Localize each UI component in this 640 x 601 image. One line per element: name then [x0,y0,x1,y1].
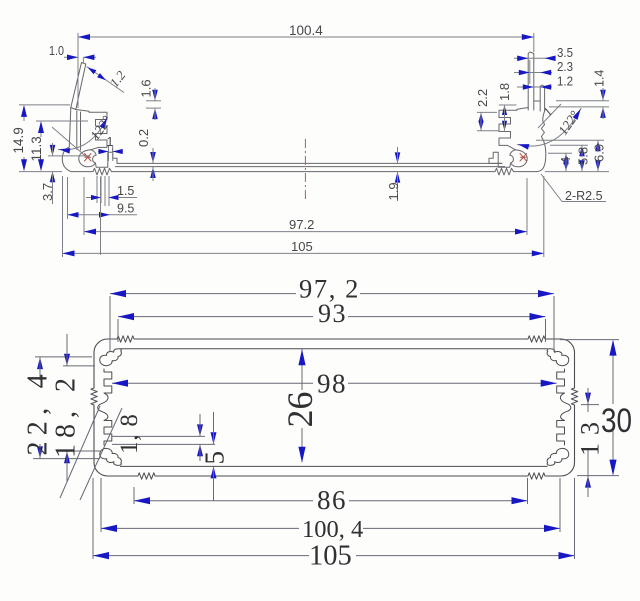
svg-text:0.2: 0.2 [136,129,151,147]
svg-text:22, 4: 22, 4 [23,368,54,456]
svg-text:1.4: 1.4 [593,70,607,87]
svg-text:93: 93 [318,299,347,328]
svg-text:1.0: 1.0 [49,44,64,58]
svg-text:3.5: 3.5 [557,46,573,60]
svg-text:30: 30 [601,402,632,440]
svg-text:14.9: 14.9 [11,127,26,153]
svg-text:5: 5 [200,451,230,465]
svg-text:100, 4: 100, 4 [302,516,363,543]
svg-text:11.3: 11.3 [29,136,44,161]
svg-text:6.9: 6.9 [592,144,607,162]
svg-text:2.2: 2.2 [475,89,490,107]
svg-text:1, 8: 1, 8 [116,413,143,454]
svg-text:1.6: 1.6 [139,79,154,97]
svg-text:26: 26 [280,392,320,428]
svg-text:18, 2: 18, 2 [51,372,82,458]
svg-text:1.5: 1.5 [117,184,134,198]
svg-text:13: 13 [576,414,605,456]
svg-text:1.2: 1.2 [557,75,573,89]
svg-text:100.4: 100.4 [289,23,323,38]
svg-text:98: 98 [317,369,347,399]
svg-text:1.8: 1.8 [497,83,512,101]
svg-text:2.3: 2.3 [557,60,573,74]
svg-text:97.2: 97.2 [289,217,314,232]
svg-text:4: 4 [558,157,573,164]
svg-text:1.9: 1.9 [386,182,401,200]
svg-text:5.8: 5.8 [576,147,591,165]
svg-text:9.5: 9.5 [117,202,134,216]
svg-text:105: 105 [309,541,352,572]
svg-text:86: 86 [317,485,347,515]
svg-text:2-R2.5: 2-R2.5 [565,189,603,203]
svg-text:105: 105 [291,239,313,254]
